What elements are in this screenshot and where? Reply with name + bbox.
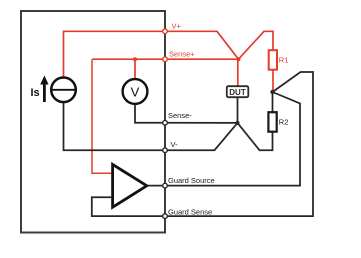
op-amp U1 [113,164,147,207]
svg-text:Sense+: Sense+ [169,50,195,59]
wire Sense+ to op-amp + input (red) [92,59,113,173]
instrument box [21,11,165,233]
wire Is bottom to V- node (black) [64,102,166,150]
svg-text:Guard Sense: Guard Sense [168,207,212,216]
wire voltmeter drop (red) [134,59,136,79]
junction V+/Sense+/DUT [237,57,241,61]
svg-text:V-: V- [171,140,179,149]
svg-text:Is: Is [31,87,40,99]
svg-text:R2: R2 [279,118,289,127]
wire V+ (red, Is top to junction) [64,31,239,77]
svg-text:Sense-: Sense- [168,111,192,120]
DUT box [227,86,249,97]
svg-text:DUT: DUT [229,88,246,97]
wire DUT bottom to junction (black) [237,97,239,123]
resistor R1 [269,50,277,69]
wire R2 top to guard node (black) [272,92,274,112]
node V+ [163,29,168,34]
node V- [163,148,168,153]
wire DUT drop (red) [237,59,239,86]
wire junction diagonal to V- (black) [165,123,238,150]
voltmeter V [123,79,148,104]
node Guard Sense [163,214,168,219]
node Sense+ [163,57,168,62]
current source Is [51,78,76,103]
node Guard Source [163,183,168,188]
wire op-amp feedback to Guard Sense node [92,197,165,216]
wire Sense- (black) [165,122,238,124]
svg-text:V: V [131,84,140,99]
wire voltmeter bottom to Sense- node (black) [135,104,165,123]
svg-text:R1: R1 [279,56,289,65]
wire guard source loop (black, guard node to Guard Source node) [165,92,300,186]
junction Sense+/voltmeter [133,57,137,61]
wire Sense+ (red) [92,58,239,60]
node Sense- [163,120,168,125]
wire guard sense loop (black, guard node to Guard Sense node) [165,72,313,216]
junction DUT/Sense-/diagonals [236,121,240,125]
wire junction diagonal to R2 bottom (black) [238,123,273,150]
Is arrow [40,76,48,103]
wire op-amp output to Guard Source node [147,185,165,187]
svg-text:Guard Source: Guard Source [168,176,215,185]
wire R1 bottom to guard node (red) [272,70,274,92]
junction guard node [270,90,274,94]
resistor R2 [268,112,276,132]
wire junction to R1 top (red) [239,31,274,59]
svg-text:V+: V+ [172,22,182,31]
